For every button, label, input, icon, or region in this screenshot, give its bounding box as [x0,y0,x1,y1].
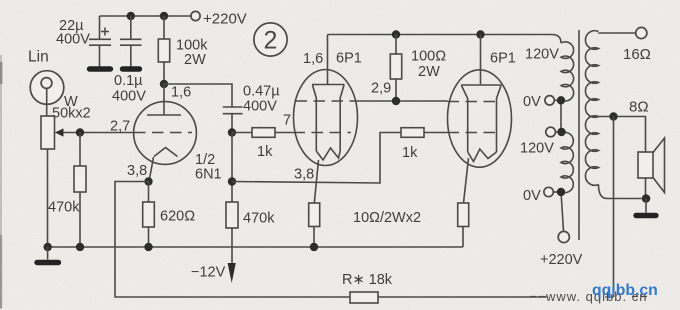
svg-text:50kx2: 50kx2 [52,106,91,122]
svg-text:8Ω: 8Ω [629,99,649,116]
capacitor C3 0.47u 400V [223,84,280,133]
svg-text:0V: 0V [523,188,541,204]
resistor R7 470k [226,202,275,264]
svg-text:1,6: 1,6 [303,51,323,67]
wire link to V3 grid [232,133,401,184]
svg-text:400V: 400V [112,89,146,105]
node (grid bus / link) [228,177,236,185]
svg-text:7: 7 [283,113,291,129]
svg-text:120V: 120V [520,141,554,157]
node (speaker/gnd) [642,194,651,203]
svg-text:6N1: 6N1 [195,167,222,183]
svg-text:6P1: 6P1 [490,51,516,67]
screen line V2-V3 [296,100,501,103]
transformer T1 core [578,30,580,240]
anode supply rail [328,35,562,44]
wire top supply rail [100,15,191,17]
node (grid drive) [228,128,236,136]
svg-text:+220V: +220V [203,11,247,28]
resistor R1 470k [48,133,86,248]
svg-text:3,8: 3,8 [294,167,314,183]
svg-text:Lin: Lin [28,49,49,66]
terminal +220V (bottom) [540,231,583,268]
ground (main) [37,247,59,263]
svg-text:0V: 0V [523,94,541,110]
svg-text:620Ω: 620Ω [160,209,195,225]
tap 120V (mid) [520,127,566,156]
resistor R9 10ohm (V3 cathode) [458,203,469,247]
pentode V3 6P1 [448,35,516,204]
node (wiper to 470k) [76,128,84,136]
svg-text:3,8: 3,8 [127,163,147,179]
node 1,6 (6N1 anode) [160,80,191,101]
svg-text:−12V: −12V [191,265,226,281]
pentode V2 6P1 [294,35,362,204]
terminal +220V [191,11,247,28]
svg-text:470k: 470k [48,200,80,216]
supply -12V arrow [191,263,236,283]
capacitor C1 22u 400V [56,16,111,67]
resistor R5 100ohm 2W [390,35,446,102]
node (620/gnd) [144,243,152,251]
wire pot bottom to ground bus [47,149,49,247]
wire bottom feedback bus [378,296,547,298]
node (rail/100ohm) [392,30,400,38]
scan edge artifact left [0,55,2,309]
ground (speaker) [636,199,656,216]
svg-text:10Ω/2Wx2: 10Ω/2Wx2 [353,210,421,226]
node (screen junction) [392,97,400,105]
node (100k tap on rail) [160,12,168,20]
terminal 16ohm [623,27,651,63]
input jack Lin [28,49,64,117]
transformer T1 secondary winding [585,31,641,199]
node (R6/gnd) [310,243,318,251]
resistor R10 Rx 18k (feedback) [342,272,393,303]
grid dashed line V3 [448,132,499,134]
figure number 2 [254,23,287,56]
node (0.1u tap on rail) [127,12,135,20]
ground bus [46,246,463,248]
wire feedback drop [613,117,615,298]
svg-text:qqibb.cn: qqibb.cn [592,282,658,299]
svg-text:120V: 120V [525,47,559,63]
svg-text:+220V: +220V [540,252,583,268]
capacitor C2 0.1u 400V [112,16,146,105]
svg-text:R∗ 18k: R∗ 18k [342,272,393,288]
node (rail/V3 anode) [476,30,484,38]
resistor R6 10ohm (V2 cathode) [309,203,320,247]
node (470k/gnd) [76,243,84,251]
svg-text:2,7: 2,7 [110,119,130,135]
speaker LS1 [638,138,665,199]
svg-text:2,9: 2,9 [371,81,391,97]
svg-text:0.1µ: 0.1µ [114,73,143,89]
svg-text:2: 2 [264,27,278,55]
resistor R3 620ohm [143,182,195,248]
ground (below C2) [123,66,140,71]
svg-text:6P1: 6P1 [336,51,362,67]
svg-text:470k: 470k [243,211,275,227]
tap 0V (lower) [523,187,565,204]
node (6N1 cathode) [144,177,152,185]
svg-text:100Ω: 100Ω [411,49,446,65]
svg-text:1k: 1k [402,145,418,161]
grid dashed line V2 [294,132,352,134]
resistor R8 1k (grid stopper V3) [401,128,448,161]
svg-text:0.47µ: 0.47µ [243,84,280,100]
wire anode to coupling cap [164,84,232,107]
svg-text:1k: 1k [257,144,273,160]
resistor R4 1k (grid stopper V2) [232,128,294,160]
resistor R2 100k 2W [158,16,208,84]
svg-text:2W: 2W [184,52,206,68]
node (8ohm/feedback) [609,112,617,120]
wire 8ohm tap [599,117,646,153]
svg-text:2W: 2W [418,64,440,80]
svg-text:400V: 400V [243,99,277,115]
svg-text:400V: 400V [56,32,90,48]
node (pot/gnd) [44,243,52,251]
transformer T1 primary winding [561,42,574,232]
wire feedback (cathode to bottom bus) [115,182,350,298]
ground (below C1) [90,66,111,71]
svg-text:16Ω: 16Ω [623,46,651,63]
potentiometer W 50kx2 [41,94,134,149]
tap 0V (upper) [523,94,565,110]
svg-text:1,6: 1,6 [171,85,191,101]
wire grid bus down [231,133,233,203]
triode U1 1/2 6N1 [134,84,222,183]
